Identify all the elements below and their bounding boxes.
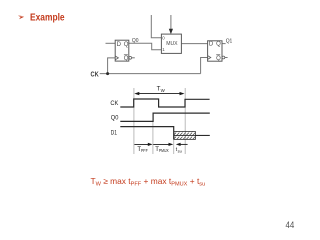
title bullet: [18, 14, 23, 17]
wire: D input stub FF0: [106, 42, 116, 44]
junction dot CK: [106, 72, 109, 75]
svg-text:Q0: Q0: [132, 38, 139, 44]
wire after hatch: [195, 134, 209, 136]
flip-flop FF1 box: [208, 41, 222, 61]
svg-text:MUX: MUX: [166, 41, 178, 47]
FF1 Qbar stub: [225, 57, 228, 59]
wire: CK rail: [100, 73, 201, 75]
D1 hatched uncertainty box: [174, 132, 196, 140]
wire: CK riser to FF0: [108, 58, 116, 74]
svg-text:Q: Q: [216, 41, 221, 47]
guide line at Q0 rise: [152, 113, 154, 155]
waveform D1: [120, 127, 173, 140]
waveform Q0: [120, 113, 210, 121]
wire: mux select from top: [170, 15, 172, 30]
waveform CK: [120, 99, 209, 107]
svg-text:Q0: Q0: [111, 115, 119, 122]
svg-text:su: su: [178, 148, 182, 153]
svg-text:D: D: [209, 41, 214, 47]
svg-text:D1: D1: [111, 130, 117, 137]
svg-text:TW ≥ max tPFF + max tPMUX + ts: TW ≥ max tPFF + max tPMUX + tsu: [91, 176, 206, 188]
svg-text:CK: CK: [91, 72, 99, 79]
svg-text:D: D: [117, 42, 122, 48]
guide line at D1 fall: [173, 140, 175, 155]
wire: mux output to FF1 D: [181, 43, 207, 45]
TPMUX dimension arrow: [153, 143, 171, 145]
svg-text:Q: Q: [124, 56, 129, 62]
FF0 clock triangle: [115, 56, 118, 60]
svg-text:Example: Example: [30, 12, 65, 24]
FF1 clock triangle: [208, 56, 211, 60]
guide line at first CK rise: [133, 88, 135, 154]
flip-flop FF0 box: [115, 40, 129, 61]
svg-text:Q: Q: [216, 56, 221, 62]
svg-text:Q: Q: [124, 42, 129, 48]
TW dimension arrow: [136, 93, 183, 95]
guide line at second CK rise: [184, 88, 186, 154]
FF0 Qbar bubble: [129, 56, 132, 59]
wire: CK riser to FF1: [201, 58, 208, 74]
svg-text:PFF: PFF: [141, 148, 148, 153]
wire: mux input0 from top: [151, 15, 161, 38]
wire: Q0 to mux input1: [129, 43, 162, 49]
FF1 Qbar bubble: [222, 56, 225, 59]
mux U1 box: [161, 34, 181, 53]
svg-text:CK: CK: [110, 100, 119, 107]
wire: Q1 stub: [222, 43, 226, 45]
svg-text:Q1: Q1: [226, 39, 233, 45]
tsu dimension arrow: [176, 143, 181, 146]
FF0 Qbar stub: [132, 57, 135, 59]
mux select arrowhead: [169, 29, 173, 34]
svg-text:PMUX: PMUX: [159, 148, 169, 153]
svg-text:44: 44: [286, 220, 295, 230]
TPFF dimension arrow: [134, 143, 151, 145]
